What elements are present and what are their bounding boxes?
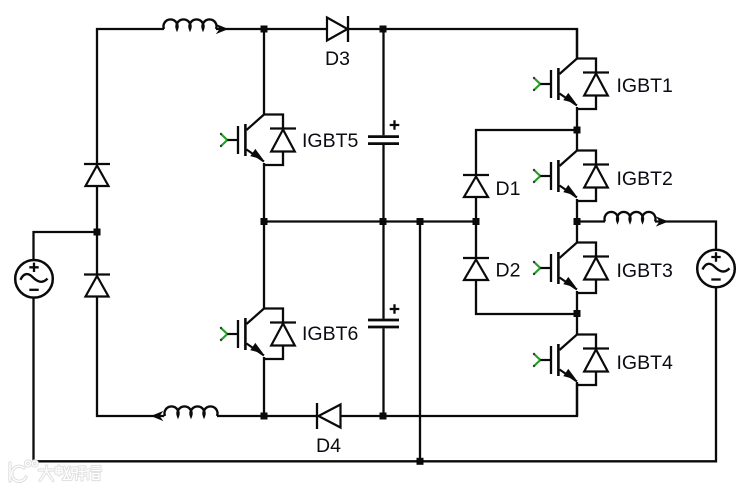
diode D3 <box>327 16 348 42</box>
AC source right <box>697 250 735 288</box>
wire: bottom wire D4 to IGBT4 emitter corner <box>341 382 578 416</box>
diode D1 with wires <box>463 130 577 222</box>
node dot at (420,221.5) <box>417 218 424 225</box>
wire: vertical link bus to bottom bus <box>419 222 421 462</box>
wire: left column between diodes <box>96 186 98 232</box>
watermark logo <box>10 461 37 481</box>
svg-text:IGBT4: IGBT4 <box>617 352 674 374</box>
inductor top-left <box>164 19 217 29</box>
IGBT1 <box>533 29 609 130</box>
svg-text:IGBT6: IGBT6 <box>302 323 358 345</box>
wire: middle bus <box>264 220 476 222</box>
node dot at (264,29) <box>261 26 268 33</box>
svg-text:IGBT1: IGBT1 <box>617 75 673 97</box>
wire: coil to right AC source <box>655 222 716 250</box>
node dot at (577,221.5) <box>574 218 581 225</box>
node dot at (383,221.5) <box>380 218 387 225</box>
IGBT4 <box>533 314 609 417</box>
wire: left AC bottom lead + bottom bus left <box>34 298 421 462</box>
wire: top-left corner, top bus left segment and left column top <box>97 29 164 164</box>
svg-text:IGBT2: IGBT2 <box>617 168 673 190</box>
svg-text:IGBT5: IGBT5 <box>302 130 359 152</box>
wire: from node to left AC source top <box>34 232 98 260</box>
inductor right <box>605 212 656 222</box>
IGBT3 <box>533 222 609 314</box>
wire: left column to lower diode <box>96 232 98 275</box>
node dot at (476,221.5) <box>473 218 480 225</box>
current arrow right <box>216 24 229 34</box>
watermark text 大数跨境 (approximated strokes) <box>39 466 101 481</box>
node dot at (383,415.5) <box>380 413 387 420</box>
node dot at (97,232) <box>94 229 101 236</box>
node dot at (264,221.5) <box>261 218 268 225</box>
AC source left <box>15 260 53 298</box>
node dot at (264,415.5) <box>261 413 268 420</box>
wire: bottom bus right + right AC bottom lead <box>420 288 716 462</box>
svg-text:D1: D1 <box>496 178 521 200</box>
svg-text:D4: D4 <box>316 435 341 457</box>
diode D2 with wires <box>463 222 577 315</box>
IGBT6 <box>220 222 296 417</box>
IGBT2 <box>533 130 609 222</box>
capacitor C2 <box>368 222 399 417</box>
node dot at (577,313.5) <box>574 310 581 317</box>
wire: bottom wire from coil to D4 <box>217 415 317 417</box>
svg-text:D3: D3 <box>325 48 350 70</box>
wire: top bus from D3 to IGBT1 corner <box>348 29 577 59</box>
capacitor C1 <box>368 29 399 222</box>
current arrow right (right inductor) <box>656 216 669 226</box>
node dot at (383,29) <box>380 26 387 33</box>
diode upper-left (on x=97) <box>84 164 110 186</box>
svg-text:IGBT3: IGBT3 <box>617 260 673 282</box>
svg-text:D2: D2 <box>496 260 521 282</box>
IGBT5 <box>220 29 296 222</box>
inductor bottom <box>165 406 218 416</box>
wire: IGBT2 emitter node to right inductor <box>577 220 605 222</box>
diode lower-left (on x=97) <box>84 275 110 297</box>
wire: top bus from coil to D3 <box>216 28 327 30</box>
wire: left column bottom and bottom wire start <box>97 297 164 417</box>
diode D4 <box>317 403 341 429</box>
node dot at (420,461) <box>417 458 424 465</box>
current arrow left on bottom wire <box>151 411 164 421</box>
node dot at (577,130) <box>574 127 581 134</box>
